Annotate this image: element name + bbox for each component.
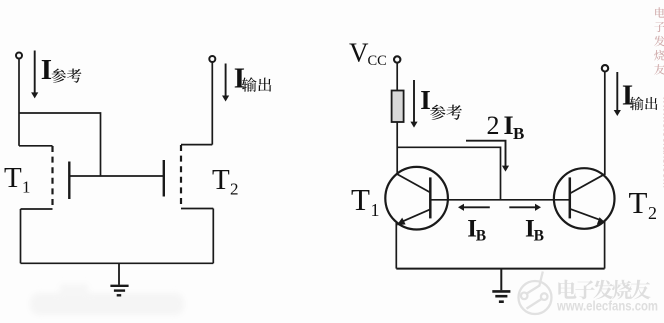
watermark logo (elecfans) — [519, 272, 552, 315]
transistor T2 (MOSFET): gate bar — [163, 160, 165, 197]
svg-text:I: I — [234, 63, 245, 95]
edge watermark vertical CJK (right edge) — [654, 7, 664, 74]
transistor T1 (BJT): collector stroke — [397, 174, 430, 193]
svg-text:T: T — [4, 162, 22, 194]
svg-text:www.elecfans.com: www.elecfans.com — [556, 298, 658, 314]
svg-text:B: B — [513, 124, 524, 143]
wire: T1 source down to bottom rail — [20, 209, 22, 263]
label I_out (right): 输出 — [630, 97, 658, 111]
wire: bottom rail (right circuit) — [396, 268, 604, 270]
transistor T2 (BJT): collector stroke — [570, 174, 605, 193]
wire: output terminal down to T2 drain — [211, 62, 213, 145]
label I_ref (right): 参考 — [430, 105, 462, 120]
arrow I_out (left) — [222, 64, 229, 102]
svg-text:1: 1 — [371, 200, 380, 220]
svg-text:CC: CC — [368, 53, 387, 69]
label T2 (right) — [629, 185, 658, 223]
svg-text:T: T — [351, 182, 370, 217]
label I_B (left) — [467, 216, 486, 245]
label T1 (right) — [351, 182, 380, 220]
wire: T1 emitter down to bottom rail — [395, 223, 397, 269]
wire: output terminal down to T2 collector — [604, 72, 606, 175]
wire: resistor to T1 collector — [396, 122, 398, 174]
label I_ref (left): 参考 — [52, 69, 82, 83]
wire: base rail between T1 and T2 — [448, 199, 554, 201]
svg-text:B: B — [476, 227, 486, 244]
arrow I_ref (left) — [31, 51, 38, 99]
Vcc terminal — [394, 56, 400, 62]
wire: Vcc terminal to resistor — [396, 63, 398, 91]
arrow I_ref (right) — [410, 80, 417, 128]
transistor T2 (BJT): body circle — [554, 168, 615, 229]
wire: T2 drain lead — [181, 144, 212, 146]
wire: T2 source down to bottom rail — [212, 209, 214, 264]
wire: shared gate lead between T1 and T2 — [69, 175, 164, 177]
arrow I_out (right) — [614, 72, 621, 116]
resistor R (gray body) — [392, 91, 404, 123]
transistor T2 (BJT): base bar — [569, 177, 572, 218]
svg-text:I: I — [41, 54, 52, 86]
svg-text:T: T — [629, 185, 648, 220]
arrow I_B (right, pointing right) — [509, 204, 541, 211]
input terminal (I_ref port) — [16, 53, 22, 59]
wire: node to gate tie vertical — [19, 113, 101, 176]
arrow I_B (left, pointing left) — [458, 204, 490, 211]
transistor T1 (MOSFET): dashed channel — [51, 146, 53, 209]
svg-text:2: 2 — [487, 111, 500, 140]
output terminal (I_out port, left) — [209, 56, 215, 62]
transistor T2 (BJT): emitter stroke with arrow — [570, 209, 606, 225]
ground (right circuit) — [492, 269, 510, 302]
wire: T2 source lead — [181, 208, 213, 210]
label 2 I_B — [487, 111, 525, 143]
transistor T1 (MOSFET): gate bar — [68, 162, 70, 200]
label VCC — [349, 38, 387, 69]
svg-text:V: V — [349, 38, 369, 68]
transistor T2 (BJT): base lead inside circle — [554, 199, 570, 201]
transistor T1 (BJT): base bar — [429, 177, 432, 218]
wire: bottom rail (left circuit) — [21, 262, 214, 264]
label I_B (right) — [525, 216, 544, 245]
output terminal (right) — [602, 65, 608, 71]
transistor T2 (MOSFET): dashed channel — [180, 145, 182, 209]
wire: T1 source lead — [21, 208, 53, 210]
svg-text:B: B — [534, 227, 544, 244]
label I_out (left): 输出 — [242, 77, 271, 92]
label T1 (left) — [4, 162, 31, 197]
watermark smudge bottom-left — [30, 284, 184, 315]
ground (left circuit) — [110, 263, 128, 295]
watermark text 电子发烧友 — [558, 280, 650, 300]
svg-text:www.elecfans.com: www.elecfans.com — [661, 95, 664, 188]
svg-text:I: I — [420, 85, 431, 115]
svg-text:T: T — [212, 164, 230, 196]
arrow 2 I_B (L-shaped) — [466, 141, 509, 172]
svg-text:1: 1 — [22, 178, 31, 197]
svg-text:2: 2 — [230, 180, 239, 199]
wire: T1 drain lead — [19, 145, 53, 147]
label T2 (left) — [212, 164, 239, 199]
svg-text:2: 2 — [648, 203, 657, 223]
wire: input terminal down to T1 drain corner — [18, 59, 20, 146]
wire: T2 emitter down to bottom rail — [604, 222, 606, 269]
wire: collector node to base tie — [397, 147, 500, 200]
transistor T1 (BJT): emitter stroke with arrow — [397, 209, 431, 225]
transistor T1 (BJT): base lead inside circle — [430, 199, 448, 201]
transistor T1 (BJT): body circle — [385, 167, 448, 230]
